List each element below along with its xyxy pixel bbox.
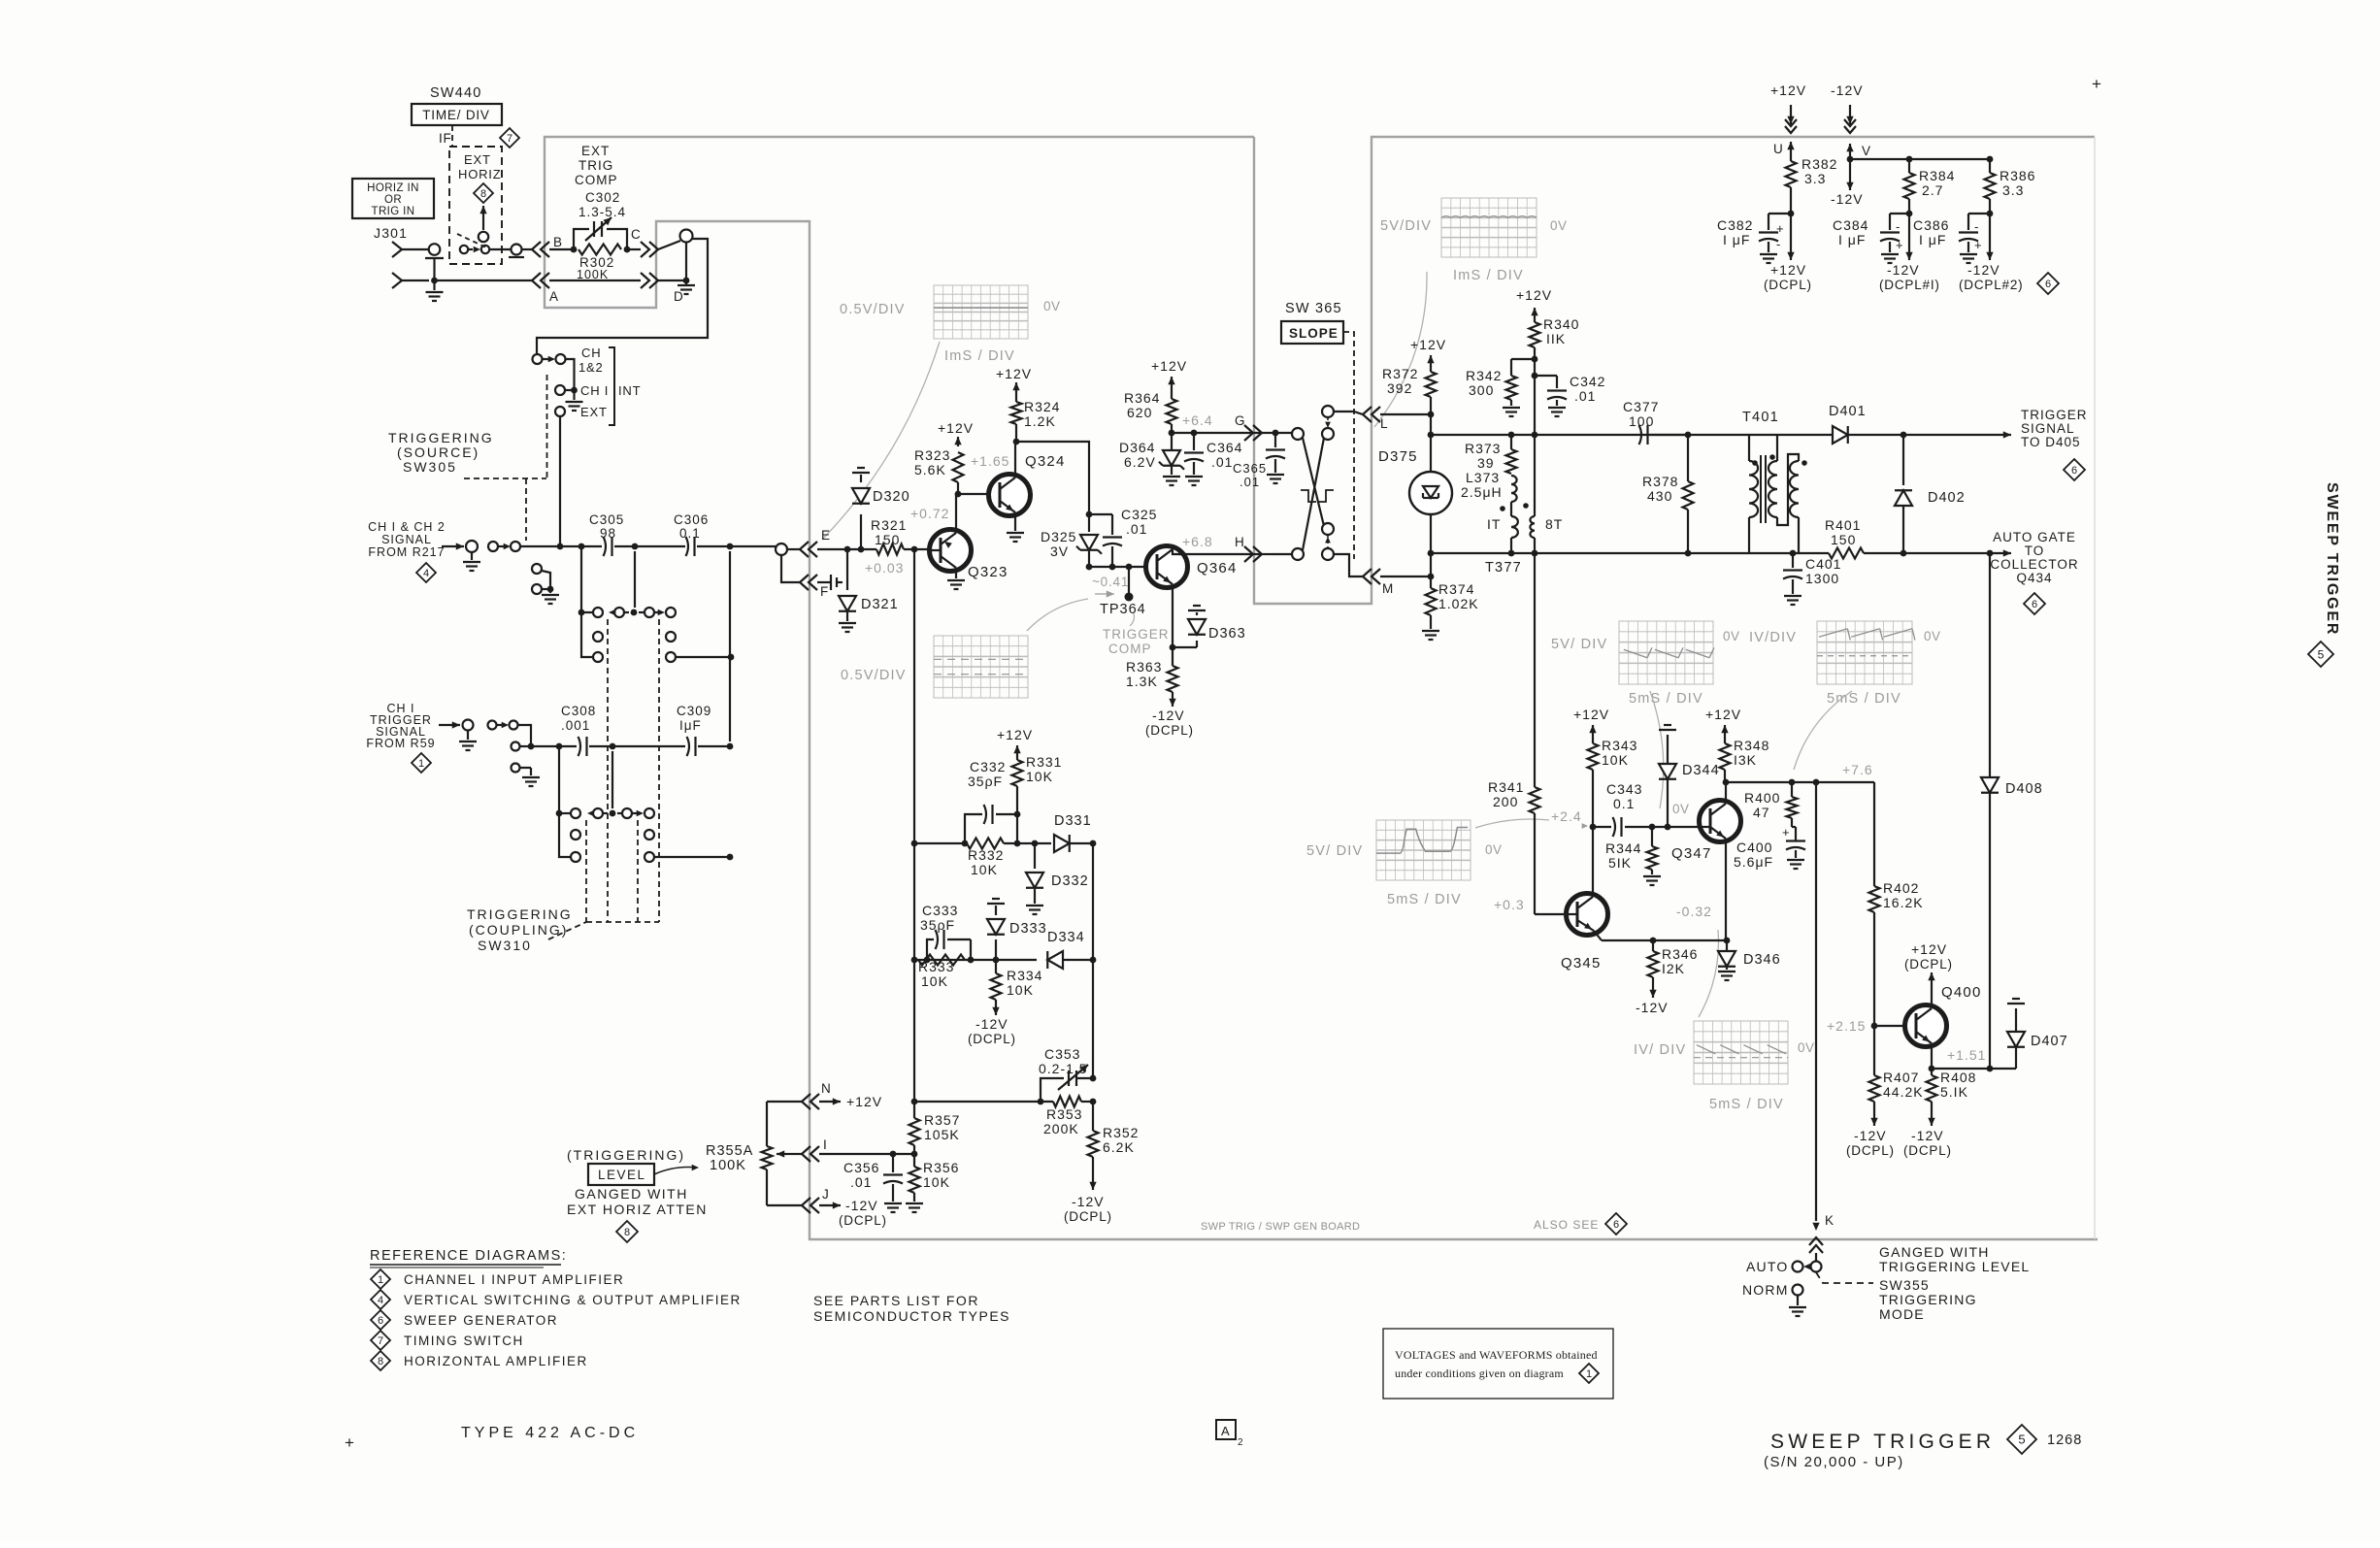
- svg-text:I μF: I μF: [1838, 232, 1866, 247]
- svg-text:-12V: -12V: [1831, 82, 1864, 98]
- diode D344: [1659, 725, 1676, 827]
- ground: [426, 280, 444, 301]
- mark plus: [345, 1433, 354, 1452]
- label D364 6.2V: [1119, 440, 1156, 470]
- resistor R323: [953, 452, 964, 494]
- switch SW305 wafer circles: [488, 542, 520, 551]
- switch arrows dashed: [1325, 417, 1331, 548]
- svg-text:R407: R407: [1883, 1070, 1919, 1085]
- svg-text:IV/ DIV: IV/ DIV: [1634, 1042, 1686, 1058]
- switch contacts row3: [593, 652, 676, 662]
- svg-text:FROM R59: FROM R59: [366, 737, 435, 750]
- label C356 .01: [843, 1160, 879, 1190]
- wire: [729, 551, 731, 741]
- waveform grid 1V/DIV (R348): [1817, 621, 1915, 684]
- svg-text:E: E: [821, 528, 831, 543]
- wire bottom rail T377: [1431, 550, 1688, 557]
- wire node C365: [1272, 430, 1298, 437]
- diamond ref 1: [412, 753, 431, 773]
- svg-text:EXT: EXT: [580, 405, 608, 419]
- diamond ref 8: [371, 1351, 390, 1370]
- label D333: [1009, 921, 1047, 937]
- svg-text:430: 430: [1647, 488, 1672, 504]
- svg-text:SW305: SW305: [403, 459, 457, 475]
- svg-text:3.3: 3.3: [1804, 171, 1826, 186]
- wire top rail T377: [1428, 432, 1688, 439]
- svg-text:1268: 1268: [2047, 1433, 2082, 1448]
- ground: [678, 280, 695, 294]
- resistor R363: [1168, 647, 1178, 692]
- svg-text:620: 620: [1127, 405, 1152, 420]
- resistor R324: [1011, 402, 1022, 445]
- svg-text:SEMICONDUCTOR TYPES: SEMICONDUCTOR TYPES: [813, 1308, 1010, 1324]
- svg-text:+7.6: +7.6: [1842, 762, 1873, 777]
- power -12V DCPL: [1145, 692, 1194, 738]
- resistor R373: [1506, 435, 1517, 474]
- power +12V: [1516, 287, 1552, 317]
- svg-text:R343: R343: [1602, 738, 1637, 753]
- wire: [1864, 550, 1993, 557]
- label F: [820, 584, 829, 599]
- wire: [1272, 553, 1298, 555]
- label R363 1.3K: [1126, 659, 1162, 689]
- svg-text:5IK: 5IK: [1608, 855, 1632, 871]
- waveform pointer arc: [822, 342, 940, 540]
- label Q323: [968, 564, 1008, 580]
- capacitor C386: [1959, 214, 1990, 263]
- label C306 0.1: [674, 512, 709, 541]
- label D321: [861, 597, 899, 612]
- svg-text:+: +: [345, 1433, 354, 1452]
- transistor Q324: [989, 442, 1031, 525]
- diode D402: [1895, 435, 1912, 556]
- svg-text:R402: R402: [1883, 880, 1919, 896]
- svg-text:R324: R324: [1024, 399, 1060, 414]
- wire K vertical: [1534, 553, 1536, 679]
- wire trigger row: [528, 743, 577, 750]
- wire dashed SW310 linkage: [548, 619, 659, 939]
- svg-text:R372: R372: [1382, 366, 1418, 381]
- diode D363: [1173, 606, 1206, 647]
- svg-text:5.6K: 5.6K: [914, 462, 946, 478]
- svg-text:(DCPL#2): (DCPL#2): [1959, 278, 2023, 292]
- svg-text:R348: R348: [1734, 738, 1769, 753]
- label Q345: [1561, 955, 1602, 972]
- diamond ref 6: [2064, 459, 2085, 480]
- diamond ref 6: [371, 1310, 390, 1330]
- label CH 1 & CH 2 SIGNAL FROM R217: [368, 520, 446, 559]
- power +12V DCPL: [1904, 941, 1953, 990]
- wire: [582, 545, 602, 547]
- svg-text:TRIG: TRIG: [578, 158, 613, 173]
- svg-text:OR: OR: [384, 194, 402, 206]
- svg-text:SIGNAL: SIGNAL: [2021, 421, 2075, 436]
- wire Q400 base: [1874, 1025, 1904, 1027]
- svg-text:D331: D331: [1054, 813, 1092, 829]
- label R352 6.2K: [1103, 1125, 1139, 1155]
- label AUTO: [1746, 1259, 1788, 1274]
- svg-text:N: N: [821, 1081, 831, 1096]
- label 1mS/DIV: [944, 348, 1015, 364]
- connector contact circle: [463, 720, 474, 731]
- svg-text:SLOPE: SLOPE: [1289, 326, 1339, 341]
- svg-text:SW440: SW440: [430, 85, 482, 101]
- label 0.5V/DIV: [841, 668, 907, 683]
- capacitor C333 bypass loop: [924, 930, 975, 963]
- svg-text:+: +: [1776, 221, 1784, 236]
- svg-text:4: 4: [423, 568, 429, 579]
- svg-text:150: 150: [1831, 532, 1856, 547]
- power +12V: [996, 366, 1032, 402]
- label R321 150: [871, 517, 907, 547]
- svg-text:TO: TO: [2025, 543, 2045, 558]
- svg-text:D401: D401: [1829, 404, 1867, 419]
- note VOLTAGES and WAVEFORMS box: [1383, 1329, 1613, 1399]
- wire: [1081, 1099, 1096, 1105]
- svg-text:.001: .001: [561, 718, 590, 733]
- wire: [1430, 414, 1432, 472]
- svg-text:Q345: Q345: [1561, 955, 1602, 972]
- wire: [1532, 359, 1557, 379]
- wire auto gate arrow: [1990, 549, 2011, 556]
- svg-text:CHANNEL I INPUT AMPLIFIER: CHANNEL I INPUT AMPLIFIER: [404, 1272, 624, 1287]
- svg-text:+12V: +12V: [1770, 82, 1806, 98]
- switch contact circle: [1292, 548, 1304, 560]
- svg-text:10K: 10K: [1602, 752, 1629, 768]
- waveform pointer arc: [1374, 272, 1427, 427]
- svg-text:(DCPL): (DCPL): [1903, 1143, 1952, 1158]
- resistor R407: [1869, 1026, 1880, 1102]
- power +12V entry: [1770, 82, 1806, 155]
- svg-text:R386: R386: [2000, 168, 2035, 183]
- svg-text:5.IK: 5.IK: [1940, 1084, 1968, 1100]
- svg-text:1: 1: [378, 1274, 383, 1286]
- label C364 .01: [1207, 440, 1242, 470]
- svg-text:3.3: 3.3: [2002, 182, 2024, 198]
- label R386 3.3: [2000, 168, 2035, 198]
- resistor R378: [1683, 435, 1694, 556]
- capacitor C305: [604, 537, 612, 556]
- wire Q324 base: [958, 493, 989, 495]
- transformer T401 core: [1761, 455, 1766, 523]
- switch section EXT HORIZ dashed box: [449, 147, 502, 264]
- wire: [1625, 824, 1700, 831]
- svg-text:R400: R400: [1744, 790, 1780, 806]
- label U: [1773, 142, 1783, 156]
- label 1F: [439, 131, 452, 146]
- margin title SWEEP TRIGGER (vertical): [2324, 482, 2340, 636]
- svg-text:TRIGGERING LEVEL: TRIGGERING LEVEL: [1879, 1259, 2030, 1274]
- label L373 2.5uH: [1461, 470, 1503, 500]
- label 1mS/DIV: [1453, 268, 1524, 283]
- label 5mS/DIV: [1629, 691, 1703, 707]
- svg-text:C302: C302: [585, 190, 620, 205]
- resistor R386: [1985, 159, 1996, 216]
- capacitor C309: [687, 737, 696, 756]
- svg-text:EXT: EXT: [464, 152, 491, 167]
- svg-text:C364: C364: [1207, 440, 1242, 455]
- label 5V/DIV: [1306, 843, 1363, 859]
- svg-text:3V: 3V: [1050, 543, 1069, 559]
- switch SW365 SLOPE box: [1281, 321, 1343, 344]
- wire: [431, 258, 438, 283]
- svg-text:R353: R353: [1046, 1106, 1082, 1122]
- svg-text:+12V: +12V: [1911, 941, 1947, 957]
- power -12V DCPL: [1846, 1102, 1895, 1158]
- resistor R332: [967, 839, 1004, 849]
- svg-text:.01: .01: [1574, 388, 1596, 404]
- label R408 5.1K: [1940, 1070, 1976, 1100]
- ground: [566, 390, 583, 411]
- label A2 assembly box: [1216, 1420, 1243, 1448]
- waveform grid 1V/DIV (Q400): [1694, 1021, 1788, 1084]
- svg-text:A: A: [1221, 1424, 1230, 1438]
- wire ladder row3: [911, 1099, 1053, 1105]
- power +12V: [938, 420, 974, 446]
- svg-text:~0.41: ~0.41: [1092, 575, 1129, 589]
- svg-text:5V/DIV: 5V/DIV: [1380, 218, 1432, 234]
- diamond ref 8: [616, 1221, 638, 1242]
- switch SW305 wafer circles: [488, 721, 518, 730]
- connector contact circle E: [776, 543, 787, 555]
- svg-text:+12V: +12V: [1705, 707, 1741, 722]
- power -12V DCPL: [819, 1198, 887, 1228]
- wire: [1428, 514, 1435, 576]
- svg-text:R321: R321: [871, 517, 907, 533]
- label 1268: [2047, 1433, 2082, 1448]
- wire switch blade dashed: [457, 234, 487, 248]
- svg-text:R378: R378: [1642, 474, 1678, 489]
- label R340 11K: [1543, 316, 1579, 346]
- capacitor C364: [1184, 433, 1204, 485]
- svg-text:SW310: SW310: [478, 938, 532, 953]
- switch contact circle: [512, 742, 532, 751]
- svg-text:NORM: NORM: [1742, 1282, 1789, 1298]
- svg-text:SWEEP TRIGGER: SWEEP TRIGGER: [1770, 1431, 1995, 1453]
- svg-text:IF: IF: [439, 131, 452, 146]
- ground: [947, 572, 965, 589]
- svg-text:R363: R363: [1126, 659, 1162, 675]
- power +12V DCPL out: [1764, 214, 1812, 292]
- svg-text:35ρF: 35ρF: [968, 774, 1003, 789]
- diamond ref 1: [371, 1269, 390, 1289]
- svg-text:(S/N 20,000 - UP): (S/N 20,000 - UP): [1764, 1454, 1904, 1470]
- wire M out: [1334, 554, 1363, 576]
- power +12V: [1705, 707, 1741, 735]
- wire: [904, 546, 929, 553]
- resistor R364: [1167, 386, 1177, 436]
- switch SW310 wafer row: [593, 608, 676, 617]
- svg-text:Q364: Q364: [1197, 560, 1238, 576]
- label 5mS/DIV: [1387, 892, 1462, 907]
- svg-text:T401: T401: [1742, 410, 1779, 425]
- label 0V: [1924, 629, 1941, 643]
- svg-text:COMP: COMP: [575, 173, 618, 187]
- svg-text:C309: C309: [677, 704, 711, 718]
- svg-text:0.5V/DIV: 0.5V/DIV: [841, 668, 907, 683]
- svg-text:HORIZ: HORIZ: [458, 167, 501, 181]
- capacitor C384: [1880, 214, 1909, 263]
- wire E row: [787, 546, 876, 553]
- label EXT HORIZ: [458, 152, 501, 181]
- label D402: [1928, 490, 1966, 506]
- transformer T377 1T winding: [1511, 502, 1518, 553]
- control LEVEL box: [588, 1164, 654, 1185]
- power -12V entry: [1831, 82, 1864, 157]
- svg-text:R401: R401: [1825, 517, 1861, 533]
- test point TP364: [1125, 567, 1134, 602]
- label EXT TRIG COMP: [575, 144, 618, 187]
- resistor R402: [1869, 782, 1880, 1029]
- svg-text:A: A: [549, 289, 559, 304]
- svg-text:C377: C377: [1623, 399, 1659, 414]
- label R372 392: [1382, 366, 1418, 396]
- power -12V DCPL: [968, 1000, 1016, 1046]
- wire base row Q364: [1086, 564, 1146, 571]
- diode D332: [1026, 843, 1043, 914]
- svg-text:R344: R344: [1605, 840, 1641, 856]
- svg-text:C305: C305: [589, 512, 624, 527]
- connector chevrons G: [1244, 425, 1272, 441]
- resistor R401: [1829, 548, 1864, 559]
- label D334: [1047, 930, 1085, 945]
- label +7.6 (gray): [1842, 762, 1873, 777]
- label 0V: [1798, 1040, 1815, 1055]
- wire pot left: [767, 1102, 802, 1205]
- svg-text:-12V: -12V: [1831, 191, 1864, 207]
- svg-text:0.1: 0.1: [1613, 796, 1635, 811]
- wire ladder row2: [911, 957, 1037, 964]
- svg-text:.01: .01: [1126, 521, 1147, 537]
- svg-text:+12V: +12V: [1516, 287, 1552, 303]
- svg-text:R374: R374: [1438, 581, 1474, 597]
- resistor R331: [1012, 755, 1023, 843]
- label +0.72 (gray): [910, 506, 949, 521]
- label D325 3V: [1041, 529, 1076, 559]
- svg-text:I μF: I μF: [1919, 232, 1946, 247]
- diode D401: [1833, 426, 1906, 444]
- label SEE PARTS LIST FOR SEMICONDUCTOR TYPES: [813, 1293, 1010, 1324]
- capacitor stub at F: [817, 575, 843, 590]
- svg-text:0.1: 0.1: [679, 526, 701, 541]
- power +12V: [1410, 337, 1446, 365]
- label TRIGGERING (COUPLING) SW310: [467, 906, 573, 953]
- tunnel diode D375: [1409, 472, 1452, 514]
- resistor R353: [1053, 1097, 1081, 1107]
- label R344 51K: [1605, 840, 1641, 871]
- svg-text:LEVEL: LEVEL: [598, 1168, 646, 1182]
- svg-text:VOLTAGES and WAVEFORMS obtaine: VOLTAGES and WAVEFORMS obtained: [1395, 1348, 1598, 1362]
- svg-text:D320: D320: [873, 489, 910, 505]
- label C382 1uF: [1717, 217, 1753, 247]
- wire: [521, 248, 532, 250]
- wire node B: [549, 247, 577, 253]
- svg-text:+12V: +12V: [1410, 337, 1446, 352]
- wire signal row: [520, 543, 584, 550]
- svg-text:10K: 10K: [1026, 769, 1053, 784]
- svg-text:-0.32: -0.32: [1676, 904, 1712, 919]
- capacitor C342: [1547, 376, 1567, 416]
- label R400 47: [1744, 790, 1780, 820]
- svg-text:8: 8: [624, 1227, 630, 1238]
- svg-text:M: M: [1382, 581, 1394, 596]
- svg-text:-12V: -12V: [1854, 1128, 1887, 1143]
- switch contact circle: [1292, 428, 1304, 440]
- label R332 10K: [968, 847, 1004, 877]
- svg-text:R334: R334: [1007, 968, 1042, 983]
- svg-text:C325: C325: [1121, 507, 1157, 522]
- label Q400: [1941, 984, 1982, 1001]
- svg-text:R384: R384: [1919, 168, 1955, 183]
- waveform grid 5V/DIV (Q347): [1619, 621, 1714, 684]
- ground: [1007, 525, 1024, 542]
- svg-text:+: +: [1782, 825, 1790, 840]
- svg-text:+1.51: +1.51: [1947, 1047, 1986, 1063]
- wire: [1089, 513, 1112, 515]
- label R373 39: [1465, 441, 1501, 471]
- wire long vertical to level ladder: [913, 549, 915, 1102]
- label NORM: [1742, 1282, 1789, 1298]
- svg-text:1&2: 1&2: [578, 360, 604, 375]
- svg-text:INT: INT: [618, 383, 641, 398]
- svg-text:V: V: [1862, 144, 1871, 158]
- label D: [674, 289, 683, 304]
- label C302: [578, 190, 626, 219]
- wire Q323 collector: [955, 491, 962, 529]
- label Q324: [1025, 453, 1066, 470]
- svg-text:I μF: I μF: [1723, 232, 1750, 247]
- power -12V: [1636, 977, 1669, 1015]
- connector HORIZ IN OR TRIG IN box: [352, 179, 434, 218]
- capacitor C308: [578, 737, 587, 756]
- power -12V stub: [1831, 159, 1864, 207]
- resistor R344: [1643, 827, 1661, 885]
- svg-text:D363: D363: [1208, 626, 1246, 642]
- label 8T: [1545, 516, 1563, 532]
- connector chevrons C: [641, 242, 658, 257]
- svg-text:U: U: [1773, 142, 1783, 156]
- wire: [612, 751, 613, 808]
- capacitor C325: [1103, 514, 1122, 567]
- wire: [1650, 432, 1775, 439]
- svg-text:(TRIGGERING): (TRIGGERING): [567, 1147, 685, 1163]
- wire dashed SW305 linkage: [464, 375, 547, 541]
- title SWEEP TRIGGER: [1770, 1431, 1995, 1453]
- svg-text:I3K: I3K: [1734, 752, 1757, 768]
- svg-text:+: +: [1896, 238, 1903, 252]
- svg-text:6: 6: [2071, 465, 2077, 477]
- svg-text:5V/ DIV: 5V/ DIV: [1551, 637, 1607, 652]
- power -12V DCPL: [1064, 1157, 1112, 1224]
- resistor R321: [876, 544, 904, 555]
- label C353 0.2-1.5: [1039, 1046, 1088, 1076]
- svg-text:IV/DIV: IV/DIV: [1749, 630, 1797, 645]
- svg-text:8: 8: [378, 1356, 383, 1367]
- svg-text:R333: R333: [918, 959, 954, 974]
- connector J301 shield circle: [425, 244, 444, 258]
- label C377 100: [1623, 399, 1659, 429]
- svg-text:Q347: Q347: [1671, 845, 1712, 862]
- svg-text:0.2-1.5: 0.2-1.5: [1039, 1061, 1088, 1076]
- svg-text:C400: C400: [1736, 840, 1772, 855]
- switch contact circle: [680, 230, 693, 243]
- svg-text:D408: D408: [2005, 781, 2043, 797]
- label TRIGGER SIGNAL TO D405: [2021, 408, 2088, 449]
- svg-text:2.5μH: 2.5μH: [1461, 484, 1503, 500]
- label SW355 TRIGGERING MODE: [1879, 1277, 1977, 1322]
- inductor L373: [1511, 476, 1517, 502]
- svg-text:-12V: -12V: [1636, 1000, 1669, 1015]
